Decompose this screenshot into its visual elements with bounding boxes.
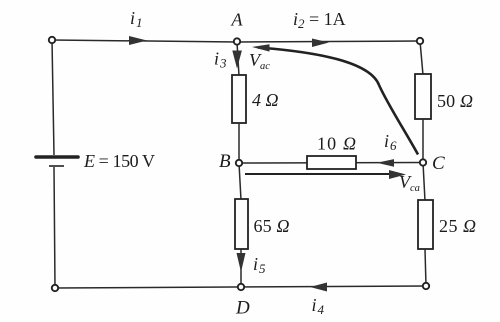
wire top-right down to 50ohm [420,41,423,75]
svg-text:25 Ω: 25 Ω [439,216,476,236]
node C [420,159,426,165]
svg-text:Vac: Vac [249,50,270,72]
svg-text:65 Ω: 65 Ω [254,216,290,236]
wire left vertical (source branch) [52,40,54,155]
wire B to C [239,162,423,165]
svg-text:E = 150 V: E = 150 V [83,151,155,171]
node A [234,38,240,44]
Vac curved arrow [258,48,418,155]
resistor 10ohm body [307,156,356,169]
Vca arrowhead [389,170,406,179]
svg-text:C: C [432,153,445,174]
wire 50ohm to C [422,119,424,163]
arrow i6 (on B-C wire near C) [377,159,394,167]
Vac curve arrowhead [252,44,270,51]
node top-left [49,37,55,43]
wire battery to bottom-left [54,167,55,288]
wire bottom (D rail) [55,286,426,288]
wire top-left to A [52,40,237,42]
resistor 25ohm body [418,200,433,249]
svg-text:50 Ω: 50 Ω [437,91,473,111]
node B [236,160,242,166]
wire A down to resistor 4ohm [237,42,239,76]
svg-text:i6: i6 [384,131,397,153]
arrow i5 [237,253,246,272]
svg-text:A: A [231,10,244,30]
arrow i3 [232,51,242,69]
resistor R 4ohm body [232,75,246,123]
arrow i4 [310,283,327,292]
node top-right [417,38,423,44]
wire B down to resistor 65ohm [239,163,241,200]
svg-text:i4: i4 [312,295,325,317]
svg-text:D: D [235,298,250,319]
Vca reference line [245,173,398,175]
node bottom-left [52,285,58,291]
wire 4ohm to B [238,123,240,163]
battery E short plate [49,165,64,167]
node bottom-right [423,283,429,289]
resistor 50ohm body [415,74,431,119]
svg-text:Vca: Vca [399,172,420,194]
arrow i2 [312,39,329,48]
svg-text:10 Ω: 10 Ω [317,134,356,154]
svg-text:i2 = 1A: i2 = 1A [293,9,346,31]
svg-text:i5: i5 [253,254,266,276]
wire 65ohm to D [240,249,242,287]
resistor 65ohm body [235,199,248,249]
svg-text:B: B [219,151,231,172]
battery E long plate [36,155,78,159]
svg-text:i3: i3 [214,49,227,71]
wire C down to 25ohm [423,163,425,202]
arrow i1 [129,36,147,45]
wire A to top-right [237,41,420,42]
node D [238,284,244,290]
svg-text:i1: i1 [130,8,143,30]
svg-text:4 Ω: 4 Ω [252,90,279,110]
wire 25ohm to bottom-right [425,249,426,286]
